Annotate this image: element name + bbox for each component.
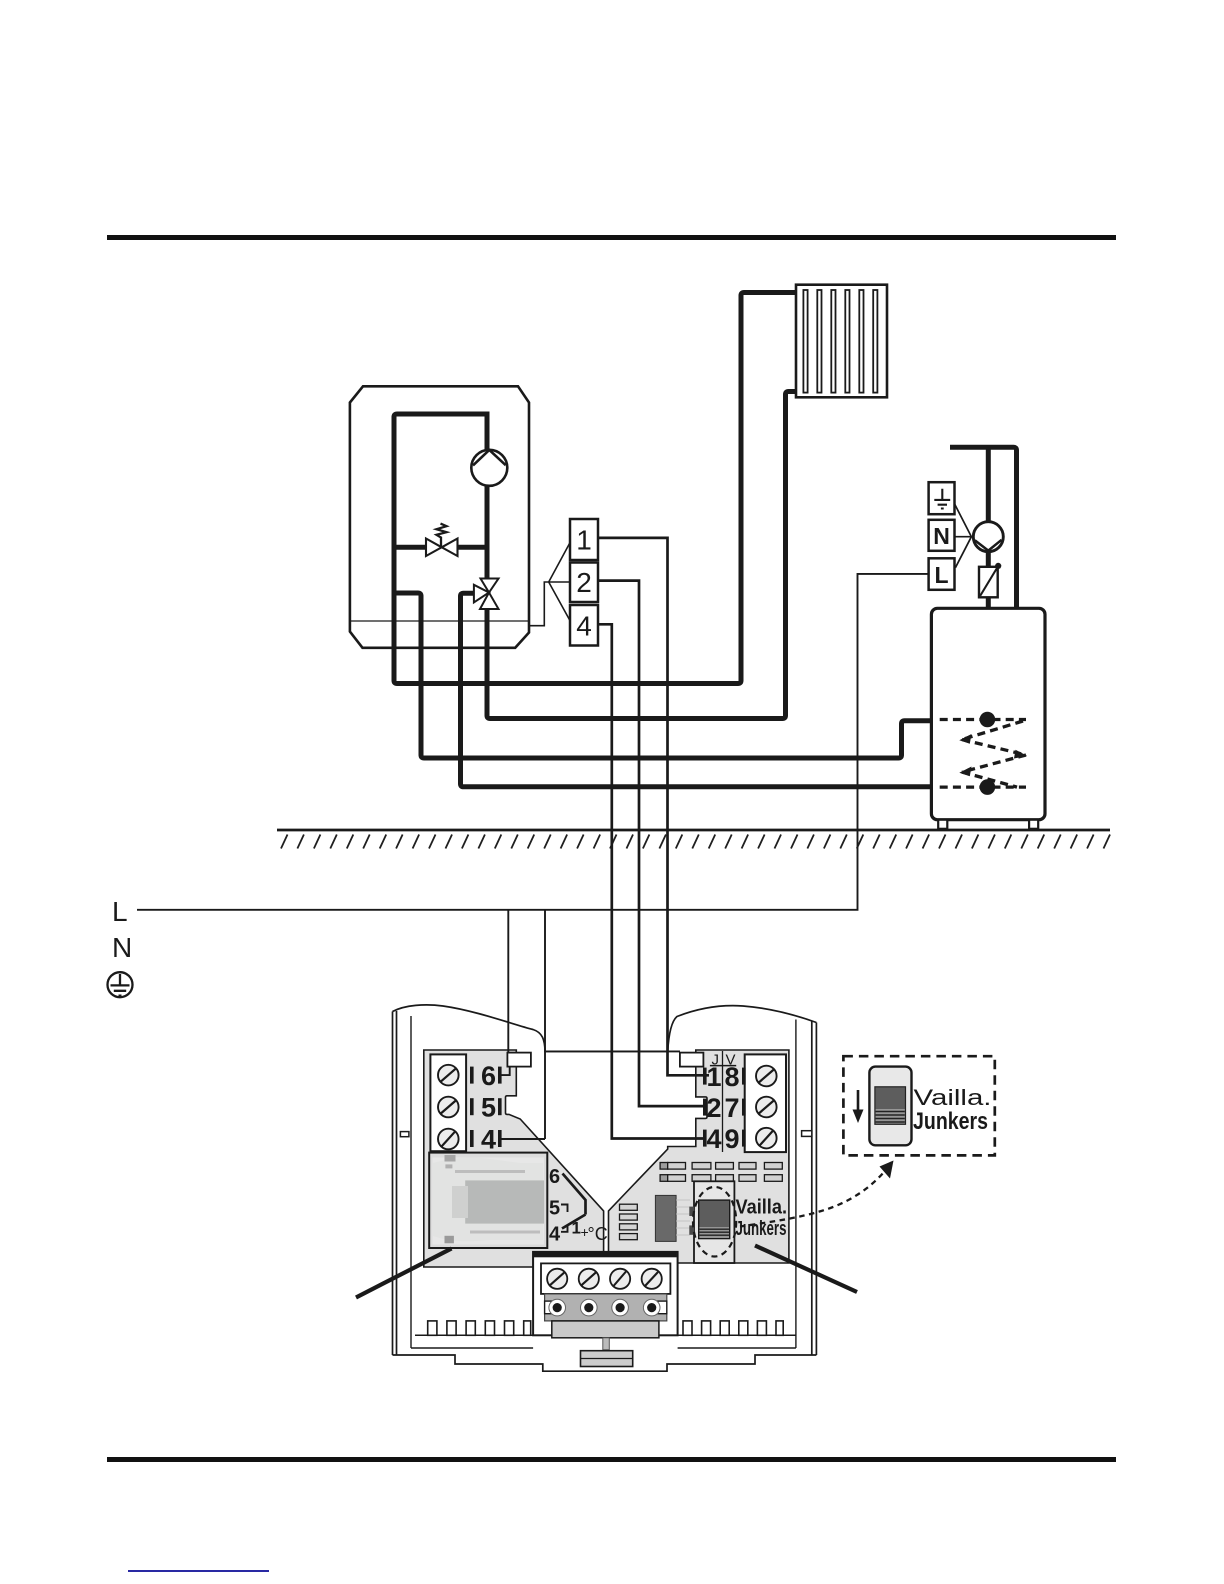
- coil flow arrowheads: [959, 734, 971, 744]
- wall-mount unit housing: left wall: [393, 1011, 397, 1355]
- boiler outline: [350, 386, 529, 648]
- terminal number 4: [470, 1130, 474, 1147]
- svg-text:N: N: [933, 523, 950, 549]
- pipe: pump line down through three-way valve: [485, 414, 490, 578]
- left gray terminal field: [424, 1050, 604, 1267]
- terminal number 27: [703, 1099, 707, 1116]
- svg-text:L: L: [112, 896, 128, 927]
- housing clip tab right: [802, 1131, 812, 1137]
- leader line right: [755, 1246, 857, 1293]
- comb teeth: [428, 1321, 784, 1335]
- right gray terminal field: [609, 1050, 789, 1263]
- spring of valve V1: [437, 524, 447, 547]
- J/V divider line: [722, 1051, 724, 1152]
- radiator: [796, 285, 887, 398]
- housing: torn top edge: [393, 1005, 817, 1052]
- top rule: [107, 235, 1116, 240]
- svg-text:5: 5: [549, 1198, 560, 1220]
- tank feet: [938, 820, 947, 829]
- selector switch (in unit): [694, 1181, 734, 1263]
- terminal number 18: [703, 1068, 707, 1085]
- svg-text:2: 2: [576, 567, 592, 598]
- fork to DHW pump: [955, 504, 972, 568]
- left screw terminal block: [430, 1054, 466, 1151]
- IC chip: [655, 1195, 676, 1241]
- terminal box N (DHW): [929, 520, 955, 551]
- DHW pump pipework: [950, 447, 1017, 629]
- wire L down to terminal 6 tab: [507, 910, 509, 1053]
- storage tank: [931, 608, 1045, 819]
- fork from boiler to boxes 1/2/4: [530, 543, 571, 626]
- svg-text:8: 8: [724, 1062, 739, 1092]
- footer link underline: [128, 1570, 269, 1572]
- pipe: boiler jog to tank top coil: [394, 593, 931, 758]
- side bars: [620, 1204, 638, 1240]
- pump P2 (DHW loading pump): [973, 522, 1003, 552]
- housing: right wall: [812, 1022, 817, 1356]
- terminal number 49: [703, 1130, 707, 1147]
- housing clip tab left: [400, 1132, 409, 1137]
- pipe: boiler flow to radiator top: [394, 293, 795, 684]
- svg-text:7: 7: [724, 1093, 739, 1123]
- sensor (tank thermostat): [979, 567, 998, 598]
- svg-text:Junkers: Junkers: [736, 1218, 787, 1240]
- housing: bottom profile: [393, 1355, 817, 1371]
- svg-text:Junkers: Junkers: [913, 1108, 988, 1135]
- down arrow: [857, 1090, 860, 1112]
- left clamp tab (terminal 6 feed): [507, 1053, 531, 1067]
- svg-text:4: 4: [706, 1124, 721, 1154]
- terminal box 4: [570, 605, 598, 646]
- svg-text:1: 1: [576, 525, 592, 556]
- boiler base thin line: [351, 620, 529, 622]
- svg-text:°C: °C: [588, 1224, 608, 1244]
- pump P1 (boiler circulation pump): [471, 450, 507, 486]
- dashed option box: [843, 1056, 994, 1155]
- connector gray band with wire holes: [545, 1294, 667, 1321]
- dashed arrow to option box: [740, 1169, 887, 1227]
- bottom rule: [107, 1457, 1116, 1462]
- wire box4 to terminal 49: [598, 624, 706, 1138]
- switch (dashed box): [869, 1067, 911, 1146]
- center bottom gray bar: [581, 1351, 633, 1367]
- pipe: valve row inside boiler: [394, 545, 487, 550]
- terminal number 6: [470, 1067, 474, 1084]
- three-way valve V2: [474, 579, 499, 610]
- svg-text:4: 4: [549, 1224, 561, 1246]
- terminal number 5: [470, 1098, 474, 1115]
- wire tab to terminal 6: [499, 1067, 510, 1076]
- relay box: [429, 1153, 547, 1248]
- svg-text:Vailla.: Vailla.: [914, 1085, 992, 1110]
- terminal box earth (DHW): [929, 482, 955, 514]
- coil junction dots: [980, 712, 996, 728]
- ground hatch line: [277, 829, 1110, 832]
- svg-text:4: 4: [481, 1124, 496, 1154]
- mains earth symbol: [108, 972, 133, 997]
- svg-text:N: N: [112, 932, 132, 963]
- right clamp tab: [680, 1053, 704, 1067]
- terminal box 2: [570, 563, 598, 603]
- mains L wire to unit: [137, 574, 929, 910]
- terminal box L (DHW): [929, 558, 955, 590]
- svg-text:L: L: [934, 562, 948, 588]
- bottom DIN connector: [533, 1252, 678, 1335]
- comb teeth baseline: [415, 1334, 796, 1336]
- pipe: three-way valve branch to tank bottom coil: [461, 593, 931, 787]
- svg-text:1: 1: [706, 1062, 721, 1092]
- svg-text:Vailla.: Vailla.: [736, 1197, 788, 1219]
- changeover blade: [562, 1174, 586, 1229]
- ground hatch strokes: [281, 835, 1110, 849]
- svg-text:9: 9: [724, 1124, 739, 1154]
- svg-text:6: 6: [549, 1166, 560, 1188]
- svg-text:4: 4: [576, 611, 592, 642]
- pipe: three-way valve to radiator bottom: [487, 392, 795, 719]
- svg-text:2: 2: [706, 1093, 721, 1123]
- tank heat-exchanger coil (dashed): [940, 720, 1026, 788]
- terminal box 1: [570, 519, 598, 560]
- wire to right tab and terminal 4: [499, 910, 680, 1139]
- component pad rows: [660, 1163, 782, 1182]
- svg-text:5: 5: [481, 1093, 496, 1123]
- dashed ellipse around switch: [693, 1187, 736, 1257]
- wire box1 to terminal 18: [598, 538, 709, 1075]
- svg-text:6: 6: [481, 1061, 496, 1091]
- leader line left: [356, 1249, 452, 1298]
- right screw terminal block: [745, 1054, 786, 1152]
- wire box2 to terminal 27: [598, 581, 706, 1107]
- valve V1 (overflow valve, bowtie): [426, 539, 458, 557]
- connector lower bar: [552, 1321, 659, 1338]
